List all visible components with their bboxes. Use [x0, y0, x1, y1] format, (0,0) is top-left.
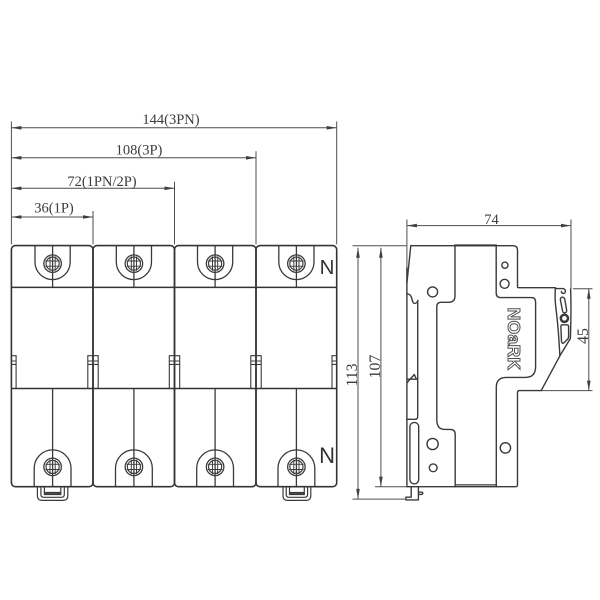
arrowheads 74 [407, 224, 417, 228]
hole circle bottom-left small [429, 464, 437, 472]
svg-text:107: 107 [367, 355, 384, 379]
dim line 36(1P) [11, 216, 93, 218]
pole2 bottom center line [133, 389, 135, 487]
svg-text:N: N [319, 443, 335, 468]
left edge [406, 268, 408, 487]
svg-text:108(3P): 108(3P) [116, 143, 163, 159]
toggle ring [561, 315, 568, 322]
extension line x=12 [10, 122, 12, 245]
poleN top center line [295, 246, 297, 288]
pole1 bottom center line [52, 389, 54, 487]
hole circle bottom-right [500, 443, 510, 453]
din channel inner wall [407, 300, 418, 419]
poleN din tab [283, 487, 311, 501]
bottom section divider line [11, 388, 336, 390]
toggle handle right edge [560, 289, 571, 356]
hole circle bottom-left big [427, 438, 438, 449]
pole1 top center line [52, 246, 54, 288]
poleN top screw [288, 255, 306, 273]
ext line top (113/107) [353, 245, 407, 247]
side outline top face [411, 246, 556, 288]
extension line x=337 [336, 122, 338, 245]
brand text NOARK rotated [504, 308, 524, 371]
ext line 74/45 right [570, 220, 572, 289]
pole1 bottom screw [44, 458, 62, 476]
extension line x=256.4 [255, 151, 257, 244]
module pole 1 body [11, 246, 93, 487]
svg-text:113: 113 [344, 363, 361, 386]
poleN bottom center line [295, 389, 297, 487]
pole3 top center line [214, 246, 216, 288]
din clip spring slot (pill) [410, 422, 419, 484]
notch right edge [332, 356, 337, 389]
bottom face [407, 485, 518, 487]
arrowheads 113 [356, 248, 360, 258]
ext line 74 left [406, 220, 408, 269]
pole1 top screw [44, 255, 62, 273]
svg-text:N: N [320, 256, 335, 279]
pole1 din tab [37, 487, 67, 501]
dim line 72(1PN/2P) [11, 187, 174, 189]
din clip triangle marker [407, 375, 418, 383]
dim line 108(3P) [11, 157, 256, 159]
inner panel left outline [437, 246, 455, 487]
din hook [407, 294, 418, 304]
labels N on pole 4 [319, 256, 335, 468]
toggle handle left edge [555, 289, 560, 356]
toggle top slot [560, 297, 566, 313]
notch left edge [11, 356, 16, 389]
ext line bottom 107 [375, 486, 407, 488]
pole3 top screw [206, 255, 224, 273]
bottom din tab [406, 487, 423, 500]
svg-text:72(1PN/2P): 72(1PN/2P) [67, 174, 136, 190]
module pole 2 body [93, 246, 175, 487]
inner panel right outline [496, 246, 535, 487]
dim line 144(3PN) [11, 127, 336, 129]
module pole 3 body [175, 246, 257, 487]
arrowheads 45 [587, 289, 591, 299]
svg-text:74: 74 [484, 212, 499, 228]
arrowheads 107 [379, 248, 383, 258]
hole circle mid-left [428, 287, 438, 297]
arrowheads 36 [11, 215, 21, 219]
arrowheads 72 [11, 187, 21, 191]
inner panel bottom darker line [455, 484, 496, 486]
top face raised segment (darker) [455, 244, 496, 246]
module pole N body [256, 246, 337, 487]
poleN bottom terminal arch [278, 450, 315, 487]
notch divider 2-3 [169, 356, 179, 389]
toggle top tip hook [555, 289, 565, 294]
notch divider 1-2 [88, 356, 98, 389]
pole2 top screw [125, 255, 143, 273]
poleN top terminal arch [279, 246, 314, 280]
toggle wedge slot [561, 325, 569, 343]
dim line 107 [380, 248, 382, 487]
pole2 bottom screw [125, 458, 143, 476]
top section divider line [11, 286, 336, 288]
arrowheads 144 [11, 126, 21, 130]
pole3 bottom center line [214, 389, 216, 487]
pole3 top terminal arch [198, 246, 233, 280]
pole3 bottom terminal arch [197, 450, 234, 487]
poleN bottom screw [288, 458, 306, 476]
pole2 top center line [133, 246, 135, 288]
svg-text:36(1P): 36(1P) [34, 201, 74, 217]
svg-text:144(3PN): 144(3PN) [142, 112, 199, 128]
front lower step and right edge down to bottom [518, 391, 542, 485]
svg-text:NOaRK: NOaRK [504, 308, 524, 371]
pole1 bottom terminal arch [34, 450, 71, 487]
extension line x=174.4 [174, 182, 176, 245]
svg-text:45: 45 [575, 328, 592, 344]
pole2 top terminal arch [116, 246, 151, 280]
dim line 45 [588, 289, 590, 391]
pole3 bottom screw [206, 458, 224, 476]
ext line 45 top [573, 288, 593, 290]
extension line x=93.3 [92, 211, 94, 244]
toggle front slant face [541, 356, 560, 391]
chamfer top-left [407, 246, 411, 283]
dim line 113 [357, 248, 359, 499]
arrowheads 108 [11, 156, 21, 160]
hole circle top big [500, 279, 509, 288]
dim line 74 [407, 225, 571, 227]
pole2 bottom terminal arch [116, 450, 153, 487]
pole1 top terminal arch [35, 246, 70, 280]
ext line 45 bottom [541, 390, 592, 392]
notch divider 3-4 [251, 356, 261, 389]
ext line bottom 113 [353, 498, 407, 500]
hole circle top small [502, 262, 508, 268]
